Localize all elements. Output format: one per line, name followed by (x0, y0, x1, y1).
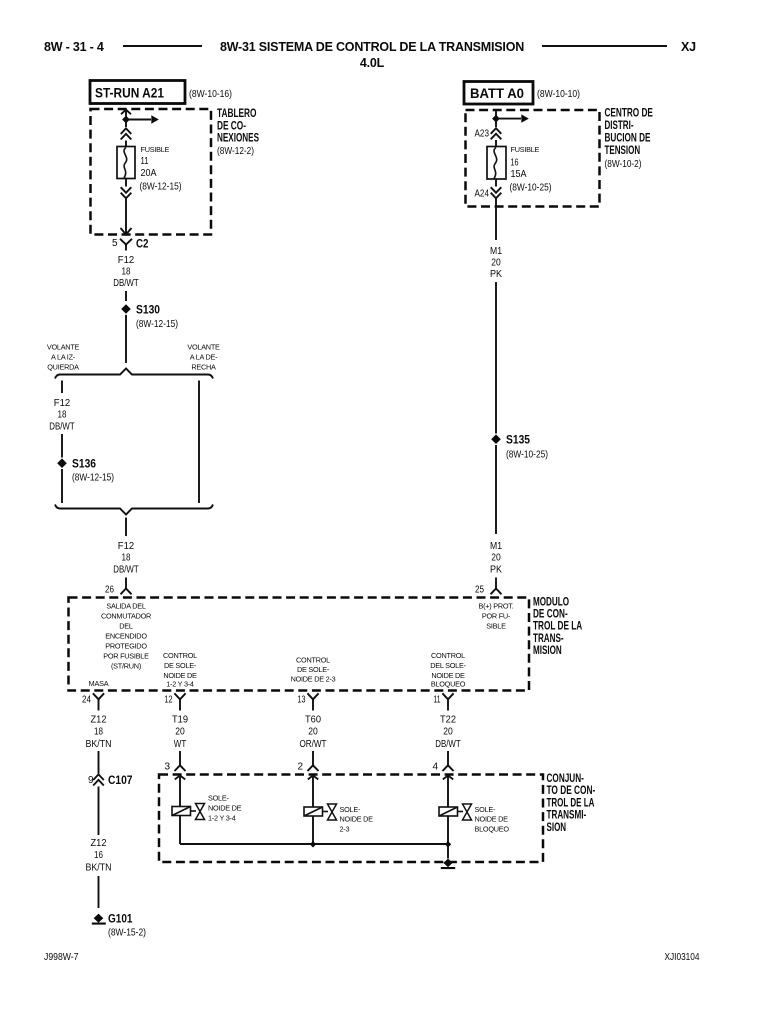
connector chevrons down (491, 187, 502, 198)
svg-text:ST-RUN A21: ST-RUN A21 (95, 85, 164, 101)
solenoid 1 entry arrow (175, 776, 185, 807)
solenoid 2 coil (304, 807, 328, 816)
svg-text:18: 18 (122, 553, 131, 564)
junction dot bus-sol2 (310, 841, 316, 847)
svg-text:NOIDE DE: NOIDE DE (431, 671, 465, 680)
svg-text:NOIDE DE: NOIDE DE (208, 804, 242, 813)
svg-text:F12: F12 (54, 398, 71, 409)
footer drawing number (44, 952, 79, 963)
svg-text:Z12: Z12 (91, 838, 107, 849)
wire label F12 18 DB/WT merged (113, 541, 139, 576)
svg-text:NOIDE DE 2-3: NOIDE DE 2-3 (291, 674, 336, 683)
fuse 16 body (487, 147, 506, 180)
svg-text:12: 12 (165, 695, 173, 706)
svg-text:8W-31 SISTEMA DE CONTROL DE LA: 8W-31 SISTEMA DE CONTROL DE LA TRANSMISI… (220, 40, 524, 54)
svg-text:F12: F12 (118, 541, 135, 552)
wire below fuse (495, 179, 497, 187)
wire to case ground (447, 844, 449, 859)
header left page number (44, 40, 104, 54)
svg-text:2: 2 (297, 762, 303, 773)
svg-text:FUSIBLE: FUSIBLE (511, 145, 540, 154)
splice S130 (121, 303, 178, 331)
svg-text:TENSION: TENSION (605, 143, 641, 157)
svg-text:CONTROL: CONTROL (431, 651, 465, 660)
pin 11 fork (434, 693, 454, 710)
module internal label control solenoide 1-2 y 3-4 (163, 651, 197, 688)
svg-text:24: 24 (82, 695, 91, 706)
connector chevrons down (121, 187, 132, 198)
svg-text:SOLE-: SOLE- (208, 794, 229, 803)
wire label Z12 16 BK/TN (86, 838, 112, 874)
wire to pin 2 (312, 751, 314, 756)
in-line connector chevrons (491, 128, 502, 139)
svg-text:MISION: MISION (533, 643, 562, 657)
wire pin24 to C107 (98, 751, 100, 774)
svg-text:20: 20 (175, 727, 185, 738)
label CONJUNTO DE CONTROL DE LA TRANSMISION (547, 771, 596, 834)
svg-text:20: 20 (491, 258, 501, 269)
svg-text:9: 9 (88, 775, 94, 786)
svg-text:(8W-10-10): (8W-10-10) (537, 88, 580, 100)
svg-text:BK/TN: BK/TN (86, 739, 112, 750)
svg-text:26: 26 (105, 585, 114, 596)
solenoid 2 wire down (312, 816, 314, 844)
svg-text:F12: F12 (118, 255, 135, 266)
svg-text:SIBLE: SIBLE (486, 622, 506, 631)
fuse 11 body (117, 147, 135, 179)
svg-text:CONTROL: CONTROL (296, 656, 330, 665)
svg-text:(ST/RUN): (ST/RUN) (111, 662, 141, 671)
connector box BATT A0 (464, 82, 533, 105)
svg-text:VOLANTE: VOLANTE (187, 343, 220, 352)
svg-text:DE SOLE-: DE SOLE- (297, 665, 330, 674)
dashed box TABLERO DE CONEXIONES (91, 109, 212, 235)
split brace top (55, 369, 213, 379)
solenoid 3 coil (439, 807, 463, 816)
svg-text:MASA: MASA (89, 679, 109, 688)
wire to ground (98, 876, 100, 908)
svg-text:25: 25 (475, 585, 484, 596)
svg-text:XJ: XJ (681, 40, 696, 54)
svg-text:4: 4 (432, 762, 438, 773)
label VOLANTE A LA DERECHA (187, 343, 220, 372)
dashed box CONJUNTO DE CONTROL (159, 775, 543, 863)
wire from ST-RUN feed (125, 110, 127, 127)
solenoid 3 wire down (447, 816, 449, 844)
module internal label MASA (89, 679, 109, 688)
svg-text:13: 13 (298, 695, 306, 706)
wire below fuse (125, 179, 127, 187)
reference (8W-10-16) (189, 88, 232, 100)
svg-text:POR FUSIBLE: POR FUSIBLE (103, 652, 149, 661)
svg-text:B(+) PROT.: B(+) PROT. (478, 602, 513, 611)
svg-text:SOLE-: SOLE- (340, 805, 361, 814)
svg-text:18: 18 (94, 727, 103, 738)
svg-text:16: 16 (94, 850, 103, 861)
label TABLERO DE CONEXIONES (217, 106, 259, 157)
pin 5 (112, 238, 118, 249)
module internal label pin26 (101, 602, 151, 671)
dashed box CENTRO DE DISTRIBUCION DE TENSION (466, 110, 600, 207)
svg-text:NOIDE DE: NOIDE DE (340, 815, 374, 824)
svg-text:(8W-15-2): (8W-15-2) (108, 928, 146, 939)
svg-text:J998W-7: J998W-7 (44, 952, 79, 963)
ground bus (180, 843, 448, 845)
svg-text:20: 20 (443, 727, 453, 738)
wire label M1 20 PK (490, 246, 502, 280)
pin A23 (475, 128, 490, 140)
pin 2 connector (297, 756, 318, 773)
svg-text:POR FU-: POR FU- (482, 612, 511, 621)
wire (495, 445, 497, 534)
svg-text:NEXIONES: NEXIONES (217, 131, 259, 145)
wire to pin 4 (447, 751, 449, 756)
branch arrow right (126, 115, 159, 123)
svg-text:PK: PK (490, 565, 502, 576)
svg-text:15A: 15A (511, 168, 527, 180)
svg-text:M1: M1 (490, 246, 502, 257)
svg-text:1-2 Y 3-4: 1-2 Y 3-4 (208, 814, 236, 823)
svg-text:DB/WT: DB/WT (435, 739, 461, 750)
svg-text:11: 11 (434, 695, 441, 706)
svg-text:DEL: DEL (119, 622, 133, 631)
svg-text:BLOQUEO: BLOQUEO (431, 680, 466, 689)
header left rule (123, 45, 202, 47)
svg-text:20A: 20A (141, 167, 157, 179)
wire (61, 434, 63, 458)
pin 4 connector (432, 756, 453, 773)
branch arrow right (496, 114, 529, 122)
svg-text:T22: T22 (440, 715, 456, 726)
case ground symbol (441, 859, 455, 870)
label CENTRO DE DISTRIBUCION DE TENSION (605, 106, 653, 171)
wire to fuse (125, 141, 127, 147)
svg-text:A LA IZ-: A LA IZ- (51, 353, 76, 362)
svg-text:T60: T60 (305, 715, 321, 726)
fuse 16 labels (510, 145, 552, 194)
svg-text:CONTROL: CONTROL (163, 651, 197, 660)
svg-text:SALIDA DEL: SALIDA DEL (106, 602, 145, 611)
svg-text:OR/WT: OR/WT (300, 739, 328, 750)
svg-text:FUSIBLE: FUSIBLE (141, 145, 170, 154)
wire below box (495, 199, 497, 240)
dashed box MODULO DE CONTROL (69, 598, 530, 691)
wire label T19 20 WT (172, 715, 188, 751)
svg-text:PROTEGIDO: PROTEGIDO (105, 642, 147, 651)
svg-text:CONMUTADOR: CONMUTADOR (101, 612, 151, 621)
svg-text:DE SOLE-: DE SOLE- (164, 661, 197, 670)
connector C107 chevrons (88, 773, 133, 787)
svg-text:DB/WT: DB/WT (49, 422, 75, 433)
splice S136 (57, 457, 114, 484)
svg-text:Z12: Z12 (91, 715, 107, 726)
header vehicle code XJ (681, 40, 696, 54)
svg-text:WT: WT (174, 739, 187, 750)
svg-text:DB/WT: DB/WT (113, 278, 139, 289)
splice S135 (491, 433, 548, 461)
svg-text:20: 20 (491, 553, 501, 564)
svg-text:20: 20 (308, 727, 318, 738)
header title line 1 (220, 40, 524, 54)
svg-text:RECHA: RECHA (191, 363, 216, 372)
svg-text:1-2 Y 3-4: 1-2 Y 3-4 (166, 680, 194, 689)
solenoid 1 coil (172, 807, 196, 816)
svg-text:ENCENDIDO: ENCENDIDO (105, 632, 147, 641)
svg-text:18: 18 (122, 267, 131, 278)
wire (125, 291, 127, 301)
header title line 2 4.0L (360, 56, 385, 70)
svg-text:(8W-10-2): (8W-10-2) (605, 158, 642, 170)
svg-text:18: 18 (58, 410, 67, 421)
svg-text:16: 16 (511, 157, 519, 169)
chevron arrow up at box edge (121, 110, 131, 115)
pin A24 (475, 188, 490, 200)
svg-text:(8W-10-16): (8W-10-16) (189, 88, 232, 100)
in-line connector chevrons (121, 128, 132, 139)
svg-text:T19: T19 (172, 715, 188, 726)
svg-text:S130: S130 (136, 303, 160, 317)
fuse 11 labels (140, 145, 182, 193)
svg-text:(8W-12-15): (8W-12-15) (136, 319, 178, 330)
footer code (665, 952, 700, 963)
wire label T22 20 DB/WT (435, 715, 461, 751)
wire from BATT feed (495, 110, 497, 127)
pin 24 fork (82, 693, 104, 710)
svg-text:(8W-12-15): (8W-12-15) (72, 473, 114, 484)
header right rule (542, 45, 667, 47)
solenoid 3 entry arrow (443, 776, 453, 808)
svg-text:(8W-10-25): (8W-10-25) (506, 450, 548, 461)
wire label F12 18 DB/WT left branch (49, 398, 75, 433)
svg-text:BK/TN: BK/TN (86, 863, 112, 874)
wire below merge (125, 518, 127, 537)
module internal label pin25 (478, 602, 513, 631)
svg-text:(8W-10-25): (8W-10-25) (510, 183, 552, 194)
label solenoide 2-3 (340, 805, 374, 834)
svg-text:(8W-12-2): (8W-12-2) (217, 145, 254, 157)
junction dot (122, 116, 130, 124)
svg-text:4.0L: 4.0L (360, 56, 385, 70)
svg-text:A24: A24 (475, 188, 490, 200)
junction dot (492, 115, 500, 123)
svg-text:DB/WT: DB/WT (113, 565, 139, 576)
wire to pin 3 (179, 751, 181, 756)
svg-text:PK: PK (490, 269, 502, 280)
svg-text:C107: C107 (108, 773, 133, 787)
label MODULO DE CONTROL DE LA TRANSMISION (533, 595, 582, 657)
svg-text:M1: M1 (490, 541, 502, 552)
junction dot bus-sol3 (445, 841, 451, 847)
wire to fuse (495, 140, 497, 147)
module internal label control solenoide bloqueo (430, 651, 466, 688)
svg-text:BLOQUEO: BLOQUEO (475, 825, 510, 834)
svg-text:NOIDE DE: NOIDE DE (475, 815, 509, 824)
svg-text:NOIDE DE: NOIDE DE (163, 671, 197, 680)
svg-text:(8W-12-15): (8W-12-15) (140, 182, 182, 193)
ground G101 (92, 912, 146, 939)
svg-text:DEL SOLE-: DEL SOLE- (430, 661, 466, 670)
wire label F12 18 DB/WT (113, 255, 139, 289)
pin 12 fork (165, 693, 186, 710)
svg-text:XJI03104: XJI03104 (665, 952, 700, 963)
pin 13 fork (298, 693, 319, 710)
solenoid 1 wire down (179, 816, 181, 845)
wire C107 down (98, 787, 100, 836)
wire label M1 20 PK lower (490, 541, 502, 576)
svg-text:8W - 31 - 4: 8W - 31 - 4 (44, 40, 104, 54)
reference (8W-10-10) (537, 88, 580, 100)
right branch wire (198, 381, 200, 504)
pin 3 connector (164, 756, 185, 773)
svg-text:BATT A0: BATT A0 (470, 85, 524, 101)
solenoid 2 entry arrow (308, 776, 318, 808)
label C2 (136, 237, 149, 251)
svg-text:SION: SION (547, 820, 567, 834)
wire label T60 20 OR/WT (300, 715, 328, 751)
connector C2 arrow and fork (120, 228, 132, 251)
svg-text:3: 3 (164, 762, 170, 773)
wire to C2 (125, 199, 127, 234)
svg-text:A23: A23 (475, 128, 490, 140)
solenoid 1 valve (196, 804, 205, 820)
wire (61, 469, 63, 503)
svg-text:S135: S135 (506, 433, 530, 447)
svg-text:SOLE-: SOLE- (475, 805, 496, 814)
svg-text:C2: C2 (136, 237, 149, 251)
long wire (495, 282, 497, 434)
solenoid 2 valve (328, 804, 337, 820)
svg-text:5: 5 (112, 238, 118, 249)
merge brace bottom (55, 505, 213, 515)
solenoid 3 valve (463, 804, 472, 820)
wire label Z12 18 BK/TN (86, 715, 112, 751)
module internal label control solenoide 2-3 (291, 656, 336, 684)
svg-text:A LA DE-: A LA DE- (190, 353, 218, 362)
svg-text:S136: S136 (72, 457, 96, 471)
pin 25 connector (475, 578, 502, 596)
svg-text:G101: G101 (108, 912, 133, 926)
label solenoide bloqueo (475, 805, 510, 834)
pin 26 connector (105, 578, 132, 596)
left branch wire (61, 381, 63, 394)
svg-text:VOLANTE: VOLANTE (47, 343, 80, 352)
connector box ST-RUN A21 (90, 81, 185, 104)
label solenoide 1-2 y 3-4 (208, 794, 242, 823)
label VOLANTE A LA IZQUIERDA (47, 343, 80, 372)
svg-text:11: 11 (141, 155, 149, 167)
svg-text:QUIERDA: QUIERDA (47, 363, 79, 372)
svg-text:2-3: 2-3 (340, 825, 350, 834)
wire to split (125, 315, 127, 363)
